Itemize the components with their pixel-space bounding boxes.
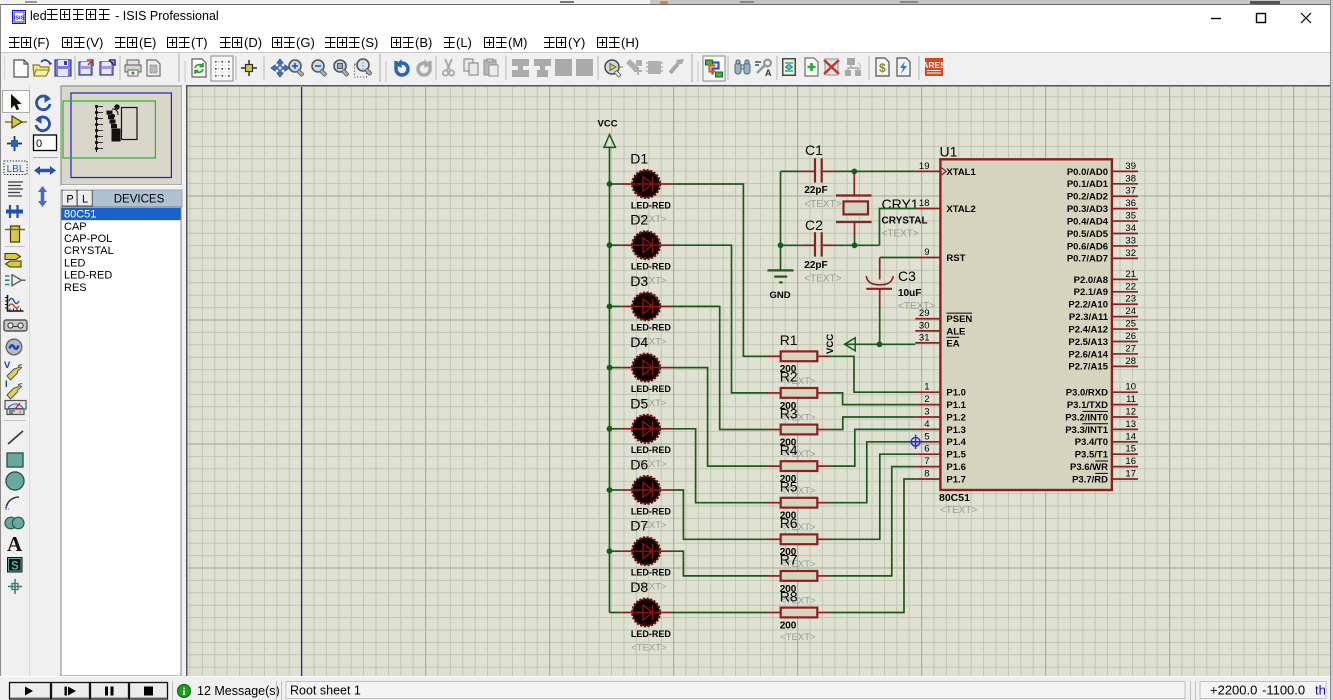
resistor R6: [768, 515, 830, 570]
svg-text:D2: D2: [630, 212, 648, 228]
svg-text:P3.3/INT1: P3.3/INT1: [1065, 425, 1108, 436]
pin 6 (P1.5): [915, 444, 966, 461]
resistor R4: [768, 442, 830, 497]
toolbar: [0, 53, 1333, 85]
node C2 left junction: [778, 242, 784, 248]
svg-text:P1.5: P1.5: [946, 450, 966, 461]
icon: packaging: [646, 61, 663, 74]
svg-text:P1.7: P1.7: [946, 474, 966, 485]
icon: pick device: [605, 60, 623, 77]
svg-text:LED: LED: [64, 257, 85, 269]
svg-text:35: 35: [1125, 211, 1136, 222]
svg-text:GND: GND: [770, 290, 791, 301]
wire R8 to pin 8: [830, 479, 915, 613]
svg-text:27: 27: [1125, 343, 1136, 354]
wire VCC rail vertical: [609, 147, 611, 612]
overview window: [61, 86, 183, 186]
background window sliver at very top: [0, 0, 1333, 4]
svg-text:28: 28: [1125, 356, 1136, 367]
svg-text:<TEXT>: <TEXT>: [804, 199, 841, 210]
svg-text:CRYSTAL: CRYSTAL: [64, 245, 114, 257]
2D closed path tool: [5, 517, 24, 529]
svg-text:<TEXT>: <TEXT>: [804, 273, 841, 284]
resistor R7: [768, 552, 830, 607]
icon: remove sheet: [824, 59, 839, 75]
svg-text:P2.0/A8: P2.0/A8: [1074, 275, 1108, 286]
svg-text:P1.4: P1.4: [946, 437, 966, 448]
svg-text:C1: C1: [805, 142, 823, 158]
pin 1 (P1.0): [915, 382, 966, 399]
svg-text:LED-RED: LED-RED: [631, 384, 671, 394]
icon: print: [125, 60, 141, 76]
svg-text:P0.2/AD2: P0.2/AD2: [1067, 192, 1108, 203]
pin 11 (P3.1/TXD): [1067, 394, 1138, 411]
pause button: [91, 683, 129, 700]
pin 19 (XTAL1): [915, 161, 976, 178]
svg-text:39: 39: [1125, 161, 1136, 172]
svg-text:P3.4/T0: P3.4/T0: [1075, 437, 1108, 448]
selection arrow tool (pressed): [3, 91, 30, 113]
svg-text:RST: RST: [946, 253, 965, 264]
wire R1 to pin 1: [830, 356, 915, 392]
svg-text:ALE: ALE: [946, 326, 965, 337]
rotate counter-clockwise: [35, 116, 50, 131]
svg-text:6: 6: [924, 444, 929, 455]
icon: open: [33, 60, 52, 76]
svg-text:XTAL2: XTAL2: [946, 204, 975, 215]
svg-text:38: 38: [1125, 173, 1136, 184]
svg-text:P1.6: P1.6: [946, 462, 966, 473]
component mode tool: [5, 116, 27, 128]
svg-text:D1: D1: [630, 151, 648, 167]
step button: [52, 683, 90, 700]
icon: property assign: [755, 60, 772, 78]
wire R2 to pin 2: [830, 393, 915, 405]
svg-text:P2.6/A14: P2.6/A14: [1068, 349, 1108, 360]
pin 7 (P1.6): [915, 456, 966, 473]
svg-text:11: 11: [1126, 394, 1136, 405]
LED D1: [607, 151, 672, 226]
svg-text:P3.5/T1: P3.5/T1: [1075, 450, 1109, 461]
svg-text:14: 14: [1125, 431, 1136, 442]
svg-text:LED-RED: LED-RED: [631, 506, 671, 516]
pin 8 (P1.7): [915, 469, 966, 486]
svg-text:P3.6/WR: P3.6/WR: [1070, 462, 1108, 473]
icon: save: [55, 60, 71, 76]
junction dot tool: [7, 136, 22, 151]
svg-text:23: 23: [1125, 294, 1136, 305]
icon: export: [100, 60, 115, 75]
pin 15 (P3.5/T1): [1075, 444, 1138, 461]
pin 2 (P1.1): [915, 394, 966, 411]
pin 10 (P3.0/RXD): [1066, 382, 1138, 399]
svg-text:P: P: [66, 194, 73, 206]
icon: make device: [626, 59, 642, 75]
schematic sunken border: [187, 86, 1333, 676]
svg-text:<TEXT>: <TEXT>: [940, 505, 977, 516]
pin 5 (P1.4): [915, 431, 966, 448]
svg-text:22pF: 22pF: [804, 260, 827, 271]
svg-text:LED-RED: LED-RED: [631, 568, 671, 578]
clock arrow on XTAL1: [942, 168, 947, 175]
svg-text:P1.0: P1.0: [946, 388, 966, 399]
rotate clockwise: [36, 95, 51, 110]
subcircuit tool: [5, 226, 25, 242]
svg-text:15: 15: [1125, 444, 1136, 455]
menu bar: [0, 30, 1333, 53]
svg-text:R6: R6: [780, 515, 798, 531]
icon: copy: [464, 59, 478, 75]
svg-text:19: 19: [919, 161, 930, 172]
icon: goto sheet: [845, 58, 861, 76]
svg-text:37: 37: [1125, 186, 1136, 197]
toolbar grip: [4, 57, 6, 79]
terminal tool: [5, 254, 21, 268]
LED D3: [607, 273, 672, 348]
voltage probe tool: [4, 360, 22, 380]
wire R7 to pin 7: [830, 467, 915, 576]
resistor R2: [768, 369, 830, 424]
svg-text:R7: R7: [780, 552, 798, 568]
wire D4 to R4: [671, 368, 768, 467]
svg-text:R8: R8: [780, 588, 798, 604]
svg-text:CAP: CAP: [64, 221, 87, 233]
icon: zoom in: [289, 60, 304, 77]
svg-text:8: 8: [924, 469, 929, 480]
wire R3 to pin 3: [830, 417, 915, 430]
svg-text:25: 25: [1125, 319, 1136, 330]
svg-text:LBL: LBL: [7, 164, 25, 175]
svg-text:I: I: [5, 379, 8, 390]
coordinates box: [1200, 682, 1326, 699]
svg-text:-1100.0: -1100.0: [1262, 683, 1305, 698]
LED D4: [607, 334, 672, 409]
graph tool: [5, 295, 24, 311]
left panel: [0, 85, 186, 676]
svg-text:P3.1/TXD: P3.1/TXD: [1067, 400, 1108, 411]
svg-text:22: 22: [1125, 281, 1136, 292]
pin 24 (P2.3/A11): [1069, 306, 1138, 323]
devices header: [61, 190, 182, 207]
node EA junction: [877, 341, 883, 347]
icon: new sheet: [805, 58, 818, 76]
icon: block rotate: [555, 59, 572, 76]
svg-text:CRY1: CRY1: [882, 196, 919, 212]
svg-text:80C51: 80C51: [939, 492, 970, 504]
LED D7: [607, 518, 672, 593]
pin 4 (P1.3): [915, 419, 966, 436]
wire C1 to XTAL1: [835, 170, 916, 172]
svg-text:i: i: [183, 687, 186, 698]
sheet edge (blue): [301, 87, 303, 676]
icon: block delete: [576, 59, 593, 76]
pin 18 (XTAL2): [915, 198, 975, 215]
svg-text:D6: D6: [630, 457, 648, 473]
svg-text:1: 1: [924, 382, 929, 393]
icon: electrical rule check: [897, 58, 910, 76]
wire left rail C1-C2-GND: [780, 171, 782, 269]
svg-text:P2.7/A15: P2.7/A15: [1068, 362, 1108, 373]
svg-text:$: $: [879, 61, 886, 75]
play button: [10, 683, 51, 700]
capacitor C2: [781, 217, 842, 284]
svg-text:2: 2: [924, 394, 929, 405]
svg-text:CAP-POL: CAP-POL: [64, 233, 112, 245]
svg-text:DEVICES: DEVICES: [114, 194, 165, 206]
svg-text:<TEXT>: <TEXT>: [898, 301, 935, 312]
pin 28 (P2.7/A15): [1068, 356, 1138, 373]
pin 39 (P0.0/AD0): [1067, 161, 1138, 178]
icon: ARES netlist: [922, 58, 946, 76]
svg-text:200: 200: [780, 620, 797, 631]
svg-text:26: 26: [1125, 331, 1136, 342]
svg-text:PSEN: PSEN: [946, 314, 972, 325]
svg-text:P1.2: P1.2: [946, 412, 966, 423]
capacitor C1: [781, 142, 842, 210]
icon: origin: [241, 60, 257, 76]
tape recorder tool: [4, 320, 27, 331]
wire label tool: [4, 161, 27, 175]
title bar: [0, 4, 1333, 30]
generator tool: [6, 339, 22, 355]
schematic editing area: [186, 85, 1333, 676]
svg-text:D5: D5: [630, 395, 648, 411]
LED D6: [607, 457, 672, 532]
svg-text:P0.0/AD0: P0.0/AD0: [1067, 167, 1108, 178]
2D arc tool: [5, 497, 19, 510]
svg-text:LED-RED: LED-RED: [631, 629, 671, 639]
pin 12 (P3.2/INT0): [1065, 407, 1138, 424]
svg-text:P0.6/AD6: P0.6/AD6: [1067, 241, 1108, 252]
icon: zoom area: [355, 59, 372, 77]
icon: search: [735, 60, 750, 74]
svg-text:R1: R1: [780, 332, 798, 348]
icon: undo: [396, 59, 409, 75]
node C2/crystal junction: [852, 242, 858, 248]
svg-text:ISIS: ISIS: [14, 16, 25, 22]
svg-text:13: 13: [1125, 419, 1136, 430]
bus tool: [6, 205, 23, 218]
svg-text:V: V: [4, 360, 11, 371]
svg-text:P2.5/A13: P2.5/A13: [1068, 337, 1108, 348]
svg-text:C2: C2: [805, 217, 823, 233]
svg-text:5: 5: [924, 431, 929, 442]
svg-text:R3: R3: [780, 405, 798, 421]
svg-text:th: th: [1315, 683, 1326, 698]
svg-text:P3.0/RXD: P3.0/RXD: [1066, 388, 1108, 399]
pin 37 (P0.2/AD2): [1067, 186, 1138, 203]
device list: [61, 207, 181, 676]
2D circle tool: [6, 472, 24, 490]
svg-text:36: 36: [1125, 198, 1136, 209]
icon: block copy: [512, 59, 529, 77]
svg-text:P2.2/A10: P2.2/A10: [1068, 300, 1108, 311]
svg-text:VCC: VCC: [598, 119, 618, 130]
svg-text:LED-RED: LED-RED: [631, 262, 671, 272]
pin 31 (EA): [915, 332, 959, 349]
icon: zoom view: [334, 60, 349, 77]
wire D2 to R2: [671, 245, 768, 393]
svg-text:P2.3/A11: P2.3/A11: [1069, 312, 1109, 323]
svg-text:LED-RED: LED-RED: [631, 445, 671, 455]
icon: new: [14, 60, 28, 77]
wire D7 to R7: [671, 551, 768, 576]
pin 35 (P0.4/AD4): [1067, 211, 1138, 228]
svg-text:22pF: 22pF: [804, 185, 827, 196]
svg-text:4: 4: [924, 419, 929, 430]
svg-text:34: 34: [1125, 223, 1136, 234]
svg-text:LED-RED: LED-RED: [64, 270, 112, 282]
svg-text:P0.3/AD3: P0.3/AD3: [1067, 204, 1108, 215]
icon: pan: [271, 59, 289, 77]
icon: cut: [443, 59, 454, 76]
svg-text:33: 33: [1125, 235, 1136, 246]
svg-text:R5: R5: [780, 479, 798, 495]
pin 33 (P0.6/AD6): [1067, 235, 1138, 252]
wire R4 to pin 4: [830, 429, 915, 466]
LED D5: [607, 395, 672, 470]
icon: wire autorouter (pressed): [703, 56, 725, 81]
icon: design explorer: [782, 58, 796, 76]
svg-text:D4: D4: [630, 334, 648, 350]
svg-text:VCC: VCC: [825, 334, 836, 354]
svg-text:Root sheet 1: Root sheet 1: [290, 684, 361, 698]
svg-text:18: 18: [919, 198, 930, 209]
resistor R3: [768, 405, 830, 460]
pin 16 (P3.6/WR): [1070, 456, 1138, 473]
stop button: [130, 683, 168, 700]
icon: print area: [147, 60, 160, 76]
cursor marker (blue): [908, 435, 922, 449]
rotation angle box: [34, 135, 57, 151]
svg-text:<TEXT>: <TEXT>: [882, 229, 919, 240]
svg-text:P1.1: P1.1: [946, 400, 966, 411]
ground GND: [768, 270, 794, 301]
svg-text:P0.1/AD1: P0.1/AD1: [1067, 179, 1109, 190]
svg-text:12 Message(s): 12 Message(s): [197, 684, 280, 698]
wire C2 to crystal bottom: [835, 244, 880, 246]
pin 27 (P2.6/A14): [1068, 343, 1138, 360]
instrument tool: [5, 401, 26, 415]
schematic grid background: [186, 85, 1333, 676]
icon: import: [79, 60, 93, 75]
resistor R1: [768, 332, 830, 387]
pin 23 (P2.2/A10): [1068, 294, 1138, 311]
pin 36 (P0.3/AD3): [1067, 198, 1138, 215]
svg-text:RES: RES: [64, 282, 87, 294]
svg-text:D8: D8: [630, 579, 648, 595]
icon: refresh: [192, 59, 206, 77]
svg-text:C3: C3: [898, 268, 916, 284]
pin 32 (P0.7/AD7): [1067, 248, 1138, 265]
svg-text:P3.2/INT0: P3.2/INT0: [1065, 412, 1108, 423]
svg-text:24: 24: [1125, 306, 1136, 317]
svg-text:U1: U1: [940, 144, 958, 160]
svg-text:<TEXT>: <TEXT>: [631, 643, 667, 654]
current probe tool: [5, 379, 22, 399]
svg-text:P0.7/AD7: P0.7/AD7: [1067, 254, 1108, 265]
text script tool: [8, 182, 23, 196]
pin 17 (P3.7/RD): [1072, 469, 1138, 486]
icon: redo: [418, 59, 431, 75]
wire D3 to R3: [671, 306, 768, 429]
svg-text:R2: R2: [780, 369, 798, 385]
2D symbol tool: [7, 557, 23, 573]
wire D6 to R6: [671, 490, 768, 539]
capacitor C3 (polarized): [866, 258, 935, 345]
svg-text:CRYSTAL: CRYSTAL: [882, 216, 928, 227]
mirror vertical: [38, 186, 47, 207]
svg-text:31: 31: [919, 332, 930, 343]
svg-text:30: 30: [919, 320, 930, 331]
svg-text:7: 7: [924, 456, 929, 467]
mirror horizontal: [34, 166, 56, 175]
crystal CRY1: [836, 173, 928, 245]
svg-text:0: 0: [36, 138, 42, 150]
pin 21 (P2.0/A8): [1074, 269, 1138, 286]
svg-text:9: 9: [924, 247, 929, 258]
icon: paste: [484, 59, 498, 76]
icon: grid (pressed): [211, 56, 233, 81]
svg-text:D3: D3: [630, 273, 648, 289]
svg-text:80C51: 80C51: [64, 209, 96, 221]
message area: [172, 681, 174, 700]
svg-text:LED-RED: LED-RED: [631, 323, 671, 333]
svg-text:P3.7/RD: P3.7/RD: [1072, 474, 1108, 485]
svg-text:R4: R4: [780, 442, 798, 458]
svg-text:A: A: [765, 68, 772, 78]
2D box tool: [7, 453, 23, 467]
svg-text:L: L: [82, 194, 88, 206]
LED D8: [610, 579, 672, 654]
pin 22 (P2.1/A9): [1074, 281, 1138, 298]
resistor R5: [768, 479, 830, 534]
pin 13 (P3.3/INT1): [1065, 419, 1138, 436]
svg-text:P0.4/AD4: P0.4/AD4: [1067, 216, 1109, 227]
svg-text:A: A: [7, 532, 23, 556]
pin 29 (PSEN): [915, 308, 972, 325]
svg-text:12: 12: [1125, 407, 1136, 418]
svg-text:LED-RED: LED-RED: [631, 200, 671, 210]
pin 34 (P0.5/AD5): [1067, 223, 1138, 240]
svg-text:S: S: [11, 561, 19, 573]
wire D5 to R5: [671, 429, 768, 503]
pin 30 (ALE): [915, 320, 965, 337]
pin 14 (P3.4/T0): [1075, 431, 1138, 448]
pin 26 (P2.5/A13): [1068, 331, 1138, 348]
node C1/XTAL1 junction: [851, 169, 857, 175]
pin 25 (P2.4/A12): [1068, 319, 1138, 336]
svg-text:3: 3: [924, 407, 929, 418]
svg-text:10: 10: [1125, 382, 1136, 393]
svg-text:<TEXT>: <TEXT>: [780, 632, 816, 643]
wire crystal junction to XTAL2: [880, 209, 916, 246]
pin 3 (P1.2): [915, 407, 966, 424]
svg-text:D7: D7: [630, 518, 648, 534]
wire R6 to pin 6: [830, 454, 915, 539]
device pin tool: [5, 274, 26, 287]
icon: block move: [534, 59, 551, 77]
2D line tool: [8, 431, 23, 444]
pin 9 (RST): [915, 247, 965, 264]
svg-text:P2.4/A12: P2.4/A12: [1068, 324, 1108, 335]
svg-text:21: 21: [1125, 269, 1136, 280]
svg-text:EA: EA: [946, 338, 959, 349]
2D marker tool: [8, 579, 22, 594]
svg-text:16: 16: [1125, 456, 1136, 467]
wire D8 to R8: [671, 612, 768, 614]
wire VCC to EA: [845, 343, 916, 345]
